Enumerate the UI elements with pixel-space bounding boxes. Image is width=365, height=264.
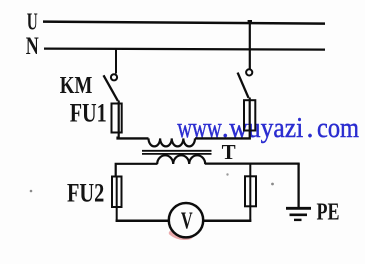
wire through fuse FU1 right down to primary — [249, 98, 251, 140]
svg-text:V: V — [181, 209, 193, 235]
wire bottom right — [204, 219, 252, 222]
contactor KM right pole contact — [246, 69, 252, 75]
voltmeter V body — [169, 203, 203, 237]
wire PE drop — [297, 164, 299, 208]
svg-text:T: T — [222, 140, 236, 164]
contactor KM right pole blade — [238, 73, 249, 98]
transformer T secondary winding — [157, 155, 205, 164]
wire secondary left — [116, 164, 158, 177]
junction on U bus — [248, 20, 252, 24]
transformer T primary winding — [149, 138, 195, 146]
wire through fuse FU2 left — [116, 177, 118, 222]
svg-text:com: com — [317, 113, 359, 144]
fuse FU2 left body — [112, 177, 122, 208]
fuse FU1 left body — [112, 104, 122, 133]
fuse FU2 right body — [245, 176, 256, 206]
svg-text:FU1: FU1 — [70, 99, 107, 128]
svg-text:FU2: FU2 — [67, 179, 104, 208]
wire U bus — [43, 22, 325, 24]
fuse FU1 right body — [244, 100, 255, 130]
svg-text:PE: PE — [317, 200, 340, 226]
ground PE symbol — [286, 208, 311, 220]
wire right branch from U — [249, 23, 251, 69]
svg-text:N: N — [26, 33, 39, 60]
wire bottom left — [116, 219, 169, 222]
wire through fuse FU2 right — [249, 164, 251, 222]
contactor KM left pole contact — [111, 74, 117, 80]
wire through fuse FU1 left — [118, 101, 120, 138]
svg-text:.: . — [307, 113, 314, 144]
wire secondary right — [205, 162, 300, 164]
wire primary right — [195, 137, 251, 139]
contactor KM left pole blade — [104, 75, 118, 101]
svg-text:U: U — [27, 10, 38, 36]
svg-text:KM: KM — [60, 73, 93, 99]
wire left branch from N — [115, 50, 117, 74]
wire primary left — [118, 137, 149, 139]
wire N bus — [44, 49, 325, 50]
transformer T core — [142, 151, 212, 154]
